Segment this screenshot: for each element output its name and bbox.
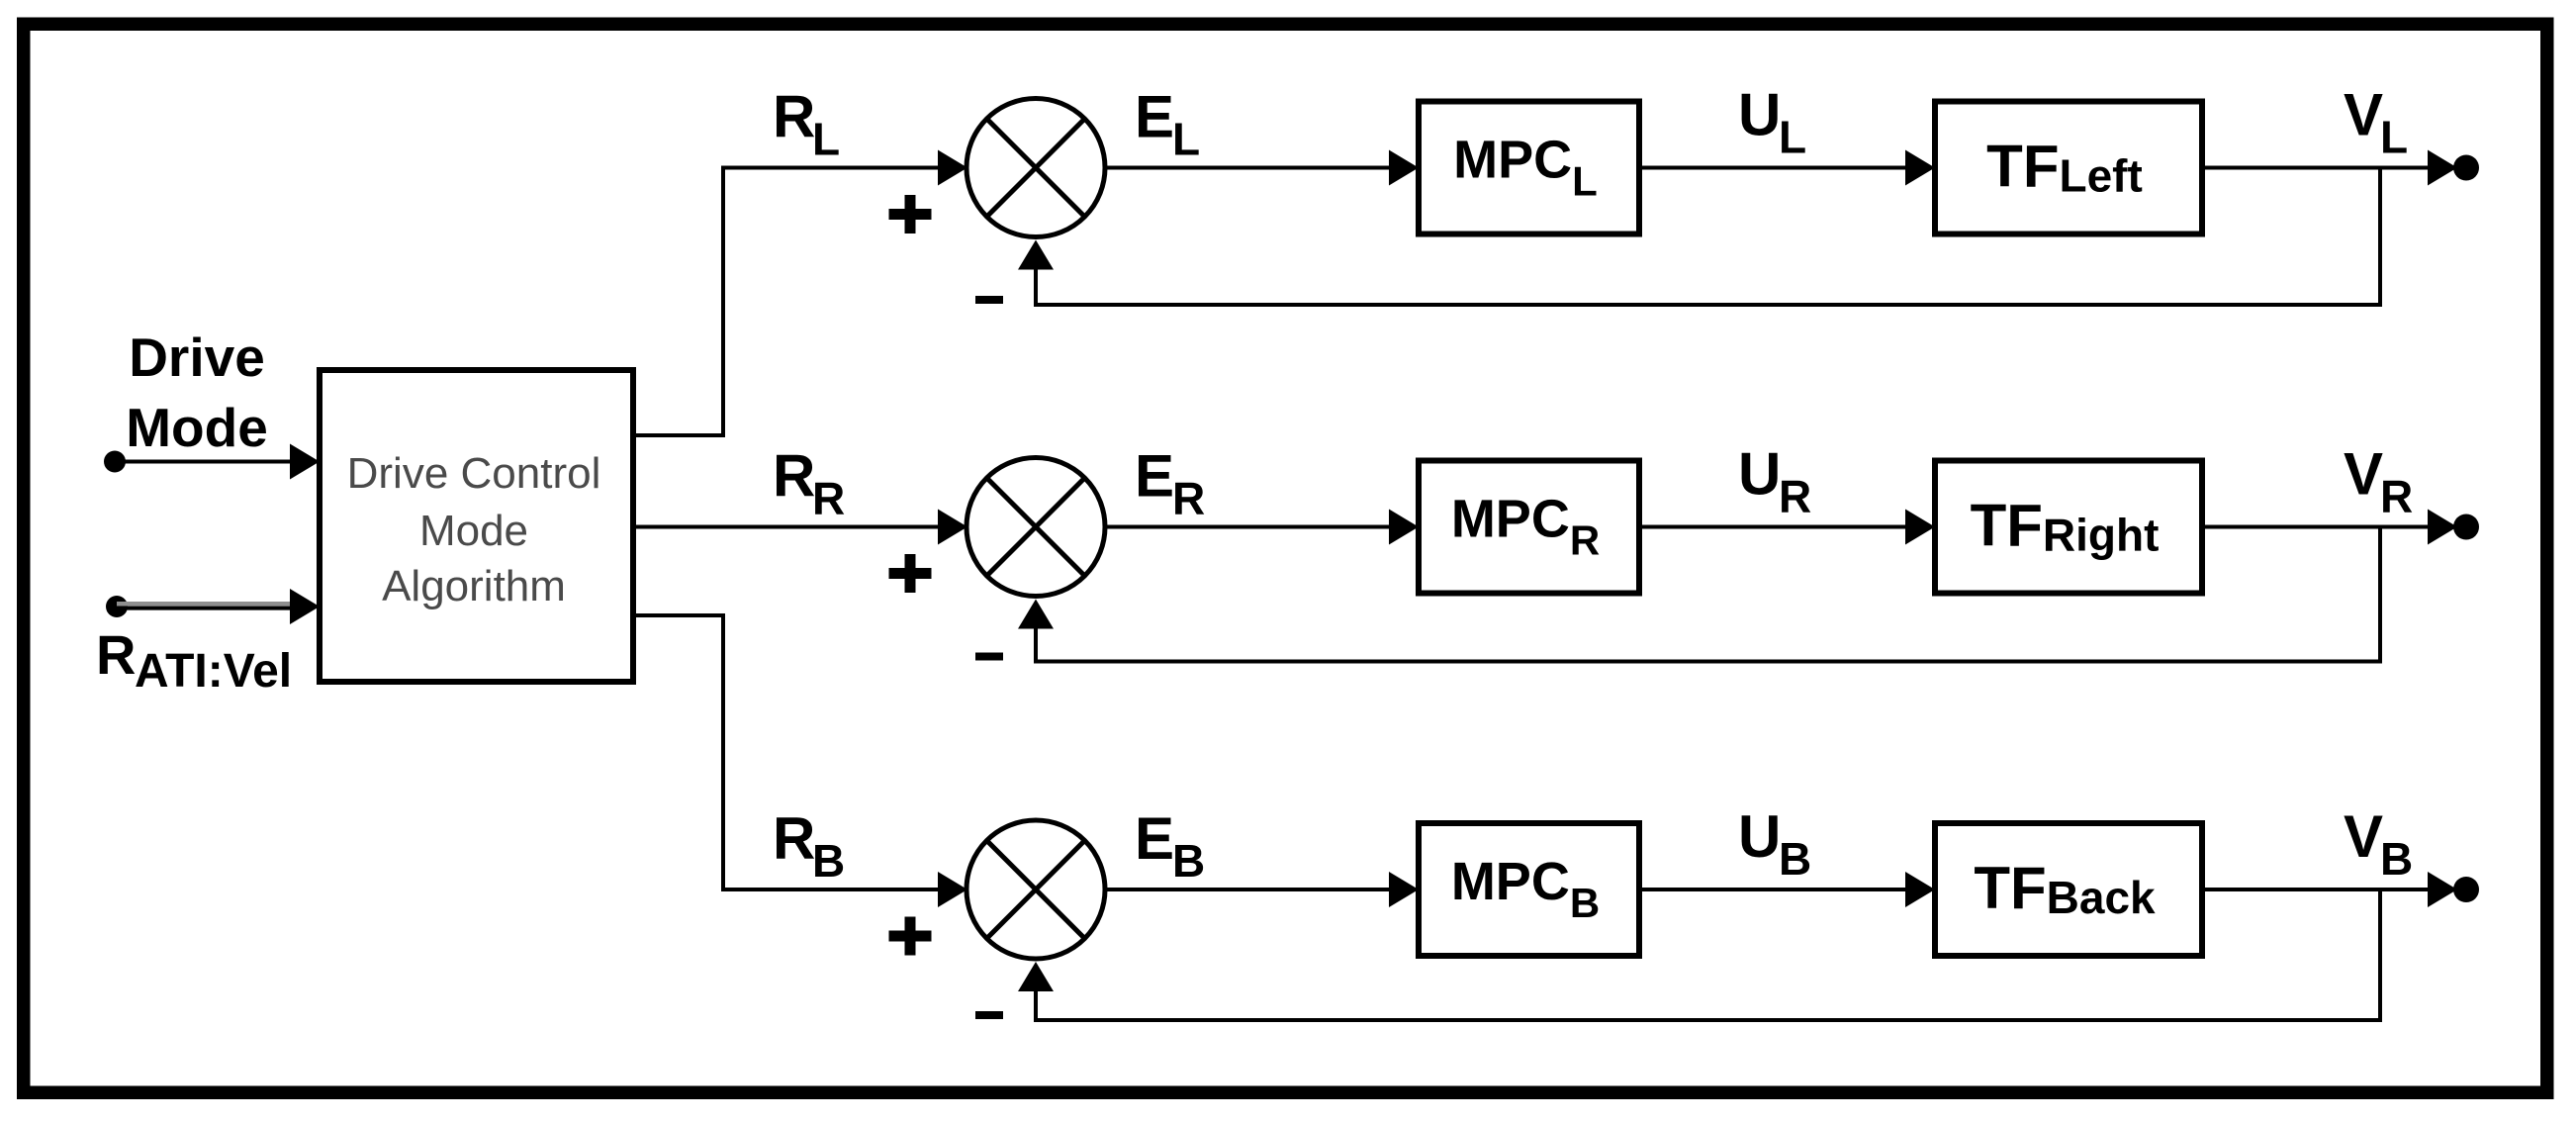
- svg-text:V: V: [2344, 441, 2383, 508]
- svg-text:E: E: [1135, 805, 1174, 872]
- svg-text:Drive: Drive: [129, 327, 265, 388]
- svg-text:R: R: [1172, 473, 1205, 524]
- svg-text:Mode: Mode: [126, 397, 268, 458]
- label: R_L: [773, 84, 840, 165]
- svg-text:R: R: [812, 473, 845, 524]
- label: U_L: [1738, 82, 1806, 163]
- node: V_L output terminal: [2453, 155, 2479, 181]
- svg-text:E: E: [1135, 443, 1174, 510]
- wire: R_L reference from U1 to summing junction S1: [633, 150, 967, 436]
- wire: R_R reference from U1 to summing junction S2: [633, 510, 967, 545]
- svg-text:R: R: [2380, 471, 2413, 522]
- summing junction S2: [966, 458, 1105, 597]
- label: R_B: [773, 805, 845, 887]
- label: V_L: [2344, 82, 2408, 163]
- svg-text:Algorithm: Algorithm: [382, 562, 566, 610]
- wire: feedback V_L to S1 minus input: [1018, 168, 2380, 306]
- svg-text:U: U: [1738, 803, 1781, 870]
- svg-text:R: R: [1779, 471, 1811, 522]
- label: U_R: [1738, 441, 1811, 522]
- svg-text:L: L: [1172, 114, 1200, 165]
- plus sign at S3: [889, 917, 932, 956]
- block: TF_Back transfer function: [1935, 823, 2202, 956]
- block: MPC_R controller: [1419, 461, 1639, 594]
- node: V_R output terminal: [2453, 515, 2479, 540]
- svg-text:B: B: [2380, 833, 2413, 885]
- node: R_ATI:Vel input terminal: [106, 596, 128, 617]
- wire: U_R from MPC_R to TF_Right: [1639, 510, 1935, 545]
- svg-text:U: U: [1738, 441, 1781, 508]
- svg-text:R: R: [96, 623, 136, 686]
- block: TF_Right transfer function: [1935, 461, 2202, 594]
- wire: Drive Mode into U1: [115, 444, 320, 480]
- svg-text:E: E: [1135, 84, 1174, 150]
- wire: E_L from S1 to MPC_L: [1105, 150, 1419, 186]
- wire: feedback V_B to S3 minus input: [1018, 889, 2380, 1020]
- svg-text:U: U: [1738, 82, 1781, 148]
- label: V_B: [2344, 803, 2413, 885]
- wire: feedback V_R to S2 minus input: [1018, 527, 2380, 662]
- node: Drive Mode input terminal: [104, 451, 126, 473]
- label: E_L: [1135, 84, 1200, 165]
- minus sign at S1: [975, 296, 1003, 304]
- svg-text:R: R: [773, 805, 815, 872]
- summing junction S1: [966, 99, 1105, 237]
- node: V_B output terminal: [2453, 877, 2479, 902]
- label: U_B: [1738, 803, 1811, 885]
- svg-text:V: V: [2344, 803, 2383, 870]
- svg-text:L: L: [2380, 112, 2408, 163]
- wire: V_L output from TF_Left to terminal: [2202, 150, 2457, 186]
- label: R_ATI:Vel: [96, 623, 292, 698]
- plus sign at S2: [889, 554, 932, 593]
- label: E_R: [1135, 443, 1205, 524]
- wire: E_B from S3 to MPC_B: [1105, 872, 1419, 907]
- label: Drive Mode: [126, 327, 268, 458]
- svg-text:R: R: [773, 443, 815, 510]
- block U1: Drive Control Mode Algorithm: [320, 370, 633, 682]
- block: TF_Left transfer function: [1935, 102, 2202, 234]
- svg-text:L: L: [812, 114, 840, 165]
- svg-text:ATI:Vel: ATI:Vel: [135, 645, 292, 698]
- label: E_B: [1135, 805, 1205, 887]
- block: MPC_L controller: [1419, 102, 1639, 234]
- svg-text:R: R: [773, 84, 815, 150]
- svg-text:B: B: [1172, 835, 1205, 887]
- svg-text:B: B: [812, 835, 845, 887]
- svg-text:L: L: [1779, 112, 1806, 163]
- label: R_R: [773, 443, 845, 524]
- svg-text:Mode: Mode: [419, 507, 528, 555]
- wire: R_B reference from U1 to summing junction S3: [633, 615, 967, 907]
- svg-text:B: B: [1779, 833, 1811, 885]
- block: MPC_B controller: [1419, 823, 1639, 956]
- wire: E_R from S2 to MPC_R: [1105, 510, 1419, 545]
- plus sign at S1: [889, 195, 932, 234]
- minus sign at S2: [975, 653, 1003, 661]
- svg-text:V: V: [2344, 82, 2383, 148]
- label: V_R: [2344, 441, 2413, 522]
- wire: U_B from MPC_B to TF_Back: [1639, 872, 1935, 907]
- wire: V_R output from TF_Right to terminal: [2202, 510, 2457, 545]
- wire: R_ATI:Vel into U1: [117, 589, 320, 624]
- wire: U_L from MPC_L to TF_Left: [1639, 150, 1935, 186]
- wire: V_B output from TF_Back to terminal: [2202, 872, 2457, 907]
- svg-text:Drive Control: Drive Control: [347, 449, 601, 498]
- summing junction S3: [966, 820, 1105, 959]
- minus sign at S3: [975, 1011, 1003, 1019]
